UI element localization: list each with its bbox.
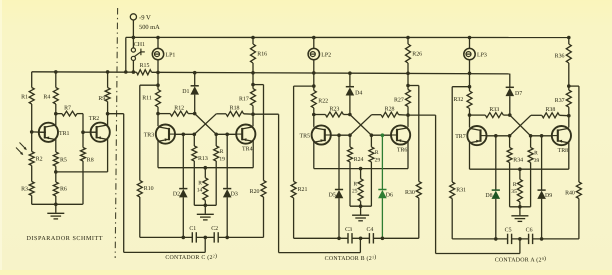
svg-text:LP1: LP1 [166,53,176,59]
wire TR base line left [331,134,350,136]
junction D3/cap row [225,236,229,240]
wire trigger out to next counter [253,114,360,252]
svg-text:R31: R31 [456,188,466,194]
wire R9 to collector node [107,102,109,114]
label LP2 [321,53,331,59]
svg-text:TR6: TR6 [397,148,408,154]
wire collector R drop [407,115,409,127]
svg-text:D4: D4 [355,90,362,96]
terminal -9V supply [130,14,136,20]
label R26 [412,51,422,57]
wire Schmitt output to counter C trigger [108,114,206,253]
wire D3 column [226,134,228,188]
svg-text:R10: R10 [144,186,154,192]
resistor R30 [416,181,421,198]
svg-text:25: 25 [352,189,358,195]
node base/Rbias left [348,133,352,137]
svg-text:R33: R33 [489,107,499,113]
wire emitter rail [158,167,253,169]
capacitor C3 [348,233,352,243]
resistor R13 [192,146,197,161]
label R14 [197,180,203,193]
wire D6 column [381,135,383,189]
svg-text:R23: R23 [329,107,339,113]
junction rail1/lamp LP3 [468,36,472,40]
label R36 [555,53,565,59]
wire TR base line right [531,135,552,137]
node D steer right [225,133,229,137]
wire R16 to rail2 [252,63,254,73]
svg-text:CONTADOR A (20): CONTADOR A (20) [495,255,547,264]
wire R29 top [370,135,372,147]
transistor TR2 [90,123,110,142]
resistor R26 [406,44,411,63]
wire R30 to cap row [418,198,420,238]
node rail2/R4 [54,70,58,74]
node Rc2/outcol [406,113,410,117]
wire Schmitt bottom line [32,203,83,205]
wire cap row mid [196,236,214,238]
wire Rc2 left [372,114,381,116]
label 500 mA [139,24,160,31]
resistor R24 [348,147,353,162]
wire lamp to rail2 [469,59,471,73]
wire stub to R10 [140,84,158,86]
wire lamp top [157,38,159,49]
label R27 [394,97,404,103]
node emitter rail/Rmid [204,166,208,170]
svg-text:R9: R9 [98,96,105,102]
wire stub to R31 [452,86,469,88]
bus rail 2 left segment [32,71,137,73]
wire R26 top [407,38,409,45]
label D7 [515,91,522,97]
svg-text:R17: R17 [239,96,249,102]
wire R9 top [107,72,109,88]
wire TR2 collector [107,114,109,126]
label R33 [489,107,499,113]
svg-text:R: R [375,150,379,156]
label R22 [318,99,328,105]
transistor TR1 [39,123,59,142]
transistor TR7 [467,126,487,145]
wire D5 to cap row [338,198,340,238]
wire Rcoll to node [568,107,570,116]
label R28 [385,107,395,113]
resistor R8 [81,148,86,162]
wire R20 to cap row [263,197,265,237]
node Rmid/box bottom [359,204,363,208]
transistor TR8 [552,126,572,145]
svg-text:TR5: TR5 [300,134,311,140]
wire stub to output column [569,85,579,87]
wire R21 to cap row [293,198,295,238]
label R38 [545,107,555,113]
wire R8 to bottom line [82,161,84,204]
junction CH1/rail2 [132,70,136,74]
label R37 [555,98,565,104]
node emitter rail/Rmid [518,167,522,171]
wire R10 column [139,85,141,180]
svg-text:R28: R28 [385,107,395,113]
junction rail2/R26 [406,72,410,76]
label D3 [231,191,238,197]
label R31 [456,188,466,194]
resistor R23 [325,112,343,117]
svg-text:C2: C2 [211,226,218,232]
svg-text:R24: R24 [354,157,364,163]
resistor R38 [542,113,560,118]
resistor R34 [507,148,512,163]
svg-text:R27: R27 [394,97,404,103]
wire rail2 to Rcoll node [252,73,254,85]
diode D4 [346,87,355,96]
node rail2/R9 [106,70,110,74]
resistor R4 [53,88,58,105]
label D4 [355,90,362,96]
svg-text:R: R [513,182,517,188]
label R4 [43,95,50,101]
label R13 [198,156,208,162]
node Rc1/diode [193,112,197,116]
wire R7 left [56,113,62,115]
wire TR2 base [83,131,97,133]
label R6 [60,186,67,192]
transistor TR6 [391,125,411,144]
svg-text:TR1: TR1 [59,131,70,137]
wire R5 to node [55,166,57,172]
wire R19 top [215,134,217,146]
wire D9 column [541,136,543,190]
wire cap row left [294,237,348,239]
node trigger junction [359,237,363,241]
svg-text:R6: R6 [60,186,67,192]
node TR2 collector out [106,112,110,116]
wire Rc2 left [216,113,226,115]
svg-text:29: 29 [375,157,381,163]
node Rc1/diode [508,113,512,117]
wire cross diagonal B [350,115,372,136]
wire Rc1 right [188,113,195,115]
wire rail2 to R11 [157,72,159,89]
wire stub to R21 [294,85,314,87]
junction rail1/lamp LP1 [156,36,160,40]
wire R10 to cap row [139,197,141,237]
wire base node to R8 [82,132,84,147]
wire D4 top [349,73,351,87]
transistor TR3 [156,125,176,144]
svg-text:R26: R26 [412,51,422,57]
resistor R2 (LDR) [29,152,34,166]
wire D1 bottom [194,95,196,114]
wire Rc2 right [559,114,568,116]
wire rail2 to R32 [469,73,471,91]
junction lamp/rail2 [312,71,316,75]
svg-text:CONTADOR C (22): CONTADOR C (22) [165,253,217,262]
svg-text:D2: D2 [173,191,180,197]
resistor R29 [369,147,374,162]
label R39 [534,151,540,164]
resistor R32 [467,91,472,109]
label D2 [173,191,180,197]
node D steer right [381,133,385,137]
lamp LP2 [308,48,319,59]
wire R24 bottom [349,162,351,206]
label DISPARADOR SCHMITT [27,235,104,242]
node R7 tap [54,112,58,116]
lamp LP3 [464,48,475,59]
ground counter B [352,206,369,221]
wire lamp top [313,38,315,49]
junction D9/cap row [540,237,544,241]
label R5 [60,158,67,164]
wire Rc1 right [343,114,350,116]
resistor R33 [485,113,503,118]
wire R7 right corner [77,114,83,133]
wire rail2 to R22 [313,73,315,91]
wire rail2 to Rcoll node [407,73,409,85]
svg-text:R1: R1 [21,95,28,101]
label R21 [298,187,308,193]
svg-text:C1: C1 [189,226,196,232]
label TR1 [59,131,70,137]
node stub R21 [312,84,316,88]
junction rail2/D4 [348,71,352,75]
wire Schmitt column1 [31,72,33,88]
label C6 [526,228,533,234]
wire collector L drop [313,115,315,127]
diode D7 [506,87,515,96]
label TR2 [89,116,100,122]
node base/Rbias left [508,134,512,138]
label TR3 [144,133,155,139]
svg-text:C3: C3 [345,227,352,233]
resistor R31 [450,182,455,199]
wire cross diagonal A [350,115,372,136]
node Rmid/box bottom [518,205,522,209]
diode D9 [537,190,546,199]
wire D6 to cap row [381,198,383,238]
wire output column [418,86,420,182]
node TR2 base/R8 [81,130,85,134]
junction D2/cap row [182,236,186,240]
svg-text:LP2: LP2 [321,53,331,59]
wire R26 to rail2 [407,63,409,73]
switch CH1 [131,48,145,61]
wire R13 top [193,134,195,146]
wire Rc2 right [399,114,408,116]
wire D2 to cap row [182,197,184,237]
node D steer left [182,133,186,137]
svg-text:14: 14 [197,188,203,194]
svg-text:C5: C5 [505,228,512,234]
label D5 [329,192,336,198]
svg-text:C4: C4 [366,227,373,233]
junction rail2/D1 [193,71,197,75]
wire Rcoll top link [568,86,570,90]
wire TR base line right [216,133,236,135]
wire D7 bottom [509,96,511,115]
junction lamp/rail2 [468,72,472,76]
wire cross diagonal A [195,114,217,135]
wire TRl emitter drop [313,141,315,168]
node collector L [312,113,316,117]
svg-text:TR7: TR7 [455,134,466,140]
wire TRr emitter drop [252,141,254,168]
wire lamp to rail2 [157,59,159,72]
svg-text:R20: R20 [250,189,260,195]
label R34 [513,157,523,163]
resistor R22 [311,90,316,108]
wire R2 to R3 [31,166,33,182]
wire Rc1 right [503,114,510,116]
label R2 [36,157,43,163]
wire R39 top [530,136,532,148]
svg-text:R16: R16 [257,51,267,57]
svg-text:R2: R2 [36,157,43,163]
wire R3 to bottom line [31,196,33,205]
wire R6 bottom [55,196,57,204]
wire cap row mid [512,238,529,240]
label R8 [87,158,94,164]
resistor R6 [53,182,58,196]
resistor R19 [214,146,219,161]
resistor R27 [406,90,411,107]
wire Rcoll top link [407,86,409,90]
node base/Rbias right [214,133,218,137]
wire cap row left [452,238,507,240]
resistor R7 [62,111,77,116]
wire box bottom [194,204,216,206]
label R3 [21,186,28,192]
label TR8 [558,148,569,154]
ground counter A [511,207,528,222]
label C5 [505,228,512,234]
wire Rmid bottom [360,201,362,206]
wire cap row right [533,238,579,240]
node base/Rbias right [370,133,374,137]
resistor R10 [137,181,142,198]
wire Rc1 left [314,114,326,116]
label R12 [174,106,184,112]
node Rc1/diode [348,113,352,117]
wire R40 to cap row [578,199,580,239]
junction rail1/R26 [406,36,410,40]
node Rcoll top [406,84,410,88]
node stub R10 [156,83,160,87]
capacitor C4 [369,233,373,243]
node collector L [156,112,160,116]
resistor R37 [566,90,571,107]
divider dash-dot line [115,8,117,258]
label D8 [485,193,492,199]
node TR1 base tap [30,130,34,134]
wire TR1 emitter drop [55,139,57,152]
node collector L [468,113,472,117]
node R5/R6 junction [54,170,58,174]
label caption counter A [495,255,547,264]
label caption counter C [165,253,217,262]
resistor R17 [251,89,256,106]
wire TRl emitter drop [157,141,159,168]
wire D7 top [509,74,511,88]
diode D5 [335,190,344,199]
svg-text:TR8: TR8 [558,148,569,154]
wire output column [263,85,265,181]
bus rail 2 main segment [152,72,510,74]
wire Rc1 left [158,113,170,115]
svg-text:R3: R3 [21,186,28,192]
svg-text:D8: D8 [485,193,492,199]
wire trigger out to next counter [408,115,520,253]
label R40 [565,191,575,197]
svg-text:C6: C6 [526,228,533,234]
wire supply drop [132,20,134,48]
svg-text:R38: R38 [545,107,555,113]
wire R36 top [568,38,570,45]
label R20 [250,189,260,195]
node Rc2/outcol [251,112,255,116]
wire R6 link [55,172,57,182]
wire collector L drop [157,114,159,126]
wire node to TR1 collector [55,114,57,126]
svg-text:R: R [220,149,224,155]
svg-text:D5: D5 [329,192,336,198]
wire box bottom [510,206,531,208]
label R10 [144,186,154,192]
svg-text:R5: R5 [60,158,67,164]
svg-text:R21: R21 [298,187,308,193]
svg-text:D1: D1 [182,89,189,95]
wire Rmid top [204,168,206,178]
svg-text:19: 19 [219,156,225,162]
node Rcoll top [251,83,255,87]
label C1 [189,226,196,232]
wire R34 bottom [509,163,511,207]
wire R29 bottom [370,162,372,206]
wire output column [578,86,580,182]
wire cross diagonal A [510,115,531,136]
diode D2 [179,189,188,198]
label D6 [386,192,393,198]
junction D5/cap row [337,237,341,241]
svg-text:R15: R15 [140,63,150,69]
label TR6 [397,148,408,154]
node D steer left [494,134,498,138]
node base/Rbias right [529,134,533,138]
wire Rcoll top link [252,85,254,89]
wire TR base line left [175,133,194,135]
wire box bottom [350,205,371,207]
wire TR base line right [371,134,390,136]
svg-text:D7: D7 [515,91,522,97]
wire to collector line [469,109,471,116]
wire Rc1 left [470,114,486,116]
wire R19 bottom [215,161,217,205]
label R15 [140,63,150,69]
label R29 [375,150,381,163]
junction rail1drop/rail2 [124,70,128,74]
label -9V [139,15,151,22]
wire Rmid bottom [519,202,521,207]
resistor R21 [291,181,296,198]
label R17 [239,96,249,102]
svg-text:CH1: CH1 [134,42,145,48]
wire D4 bottom [349,96,351,115]
wire D2 column [182,134,184,188]
wire stub to output column [253,84,264,86]
label TR7 [455,134,466,140]
